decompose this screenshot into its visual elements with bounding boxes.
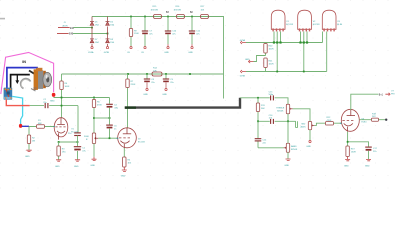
node AC B junction bbox=[107, 33, 109, 35]
pin circle C12 bbox=[191, 47, 193, 49]
capacitor C9 bbox=[163, 79, 175, 84]
wire bass bottom to ground bbox=[287, 152, 289, 159]
svg-text:100R: 100R bbox=[269, 64, 274, 66]
SECTION: heater wiring bbox=[240, 10, 343, 77]
node mid row left bbox=[257, 120, 259, 122]
svg-text:GND: GND bbox=[162, 94, 167, 96]
ground R3 bbox=[56, 160, 61, 161]
node R11 top bbox=[257, 97, 259, 99]
wire plate node to pot column bbox=[54, 97, 110, 99]
svg-text:GND: GND bbox=[50, 100, 55, 102]
svg-text:6V3B: 6V3B bbox=[240, 75, 246, 77]
svg-text:GND: GND bbox=[284, 165, 289, 167]
wire diode column left bbox=[91, 17, 93, 47]
node bus junction C7 bbox=[144, 16, 146, 18]
node rail R7 bbox=[127, 73, 129, 75]
wire C12 column bbox=[191, 17, 193, 31]
svg-text:GND: GND bbox=[90, 165, 95, 167]
svg-text:GND: GND bbox=[143, 94, 148, 96]
svg-text:B250K: B250K bbox=[277, 110, 284, 112]
potentiometer MID bbox=[301, 122, 315, 130]
svg-text:9VB: 9VB bbox=[69, 34, 74, 36]
svg-text:68K: 68K bbox=[38, 123, 42, 125]
wire mid row bbox=[258, 120, 296, 122]
SECTION: V3 stage bbox=[314, 91, 394, 168]
pin B+1 arrow bbox=[385, 93, 390, 96]
svg-text:EL84: EL84 bbox=[337, 24, 343, 26]
pot photo bbox=[4, 88, 13, 100]
node cathode bbox=[347, 141, 349, 143]
svg-text:150K: 150K bbox=[134, 33, 139, 35]
resistor R9 bbox=[129, 29, 132, 37]
wire plate to B+ bbox=[351, 94, 379, 110]
capacitor C8 bbox=[144, 79, 156, 84]
svg-text:GND: GND bbox=[344, 165, 349, 167]
resistor R2 grid leak bbox=[27, 135, 30, 144]
wire treble feed bbox=[240, 98, 288, 105]
stray gray dash top-left bbox=[0, 18, 5, 20]
capacitor C10 bbox=[165, 31, 177, 36]
potentiometer VOLUME bbox=[84, 133, 98, 144]
svg-text:GND: GND bbox=[365, 165, 370, 167]
wire cathode drop bbox=[123, 148, 125, 157]
wire pot bottom to ground bbox=[93, 144, 95, 157]
node B3 bbox=[167, 16, 169, 18]
pin heater supply bottom bbox=[241, 70, 247, 73]
wire R2 drop bbox=[28, 127, 30, 150]
svg-text:MID: MID bbox=[302, 124, 306, 126]
resistor R6 plate load bbox=[61, 74, 63, 118]
node red blob grid in bbox=[19, 124, 22, 128]
wire black jack sleeve bbox=[11, 75, 30, 90]
tube envelope V1 heater bbox=[271, 10, 294, 31]
tube envelope V3 heater bbox=[322, 10, 343, 31]
wire cathode bus bbox=[59, 141, 78, 143]
capacitor C14 bbox=[255, 121, 267, 148]
svg-text:GND: GND bbox=[74, 166, 79, 168]
SECTION: power supply bbox=[57, 6, 224, 98]
svg-text:TREBLE: TREBLE bbox=[276, 107, 285, 109]
diode D6 bbox=[106, 21, 110, 25]
svg-text:6V3A: 6V3A bbox=[88, 51, 94, 54]
wire treble bottom to bass node bbox=[287, 114, 289, 122]
svg-text:6V3B: 6V3B bbox=[104, 52, 110, 54]
wire humdinger tap bbox=[254, 56, 266, 62]
capacitor C4 bbox=[106, 98, 119, 119]
triode V1 bbox=[53, 118, 79, 140]
tube envelope V2 heater bbox=[298, 10, 321, 31]
node AC A junction bbox=[91, 27, 93, 29]
ground arrow annotation bbox=[16, 75, 18, 81]
node cathode right bbox=[77, 141, 79, 143]
svg-text:1K5/5W: 1K5/5W bbox=[151, 9, 158, 11]
svg-text:EL84: EL84 bbox=[362, 121, 368, 123]
capacitor C2 coupling bbox=[43, 99, 48, 108]
resistor R16 inline bbox=[177, 15, 185, 19]
pin circle C7 bbox=[144, 47, 146, 49]
node plate/97 bbox=[61, 97, 63, 99]
resistor R20 humdinger top bbox=[265, 43, 267, 72]
pin circle R9 bbox=[130, 47, 132, 49]
svg-text:470K: 470K bbox=[327, 120, 332, 122]
resistor R19 cathode bbox=[346, 146, 349, 157]
node B2 bbox=[191, 16, 193, 18]
node mid row right bbox=[287, 120, 289, 122]
wire cyan pot wiper bbox=[12, 96, 22, 124]
node dark terminal bbox=[385, 119, 387, 121]
node rail C8 bbox=[146, 73, 148, 75]
svg-text:1M: 1M bbox=[32, 141, 35, 143]
svg-text:GND: GND bbox=[25, 156, 30, 158]
wire link 118 bbox=[94, 117, 110, 119]
wire R9 column bbox=[130, 17, 132, 29]
svg-text:ECC83: ECC83 bbox=[286, 24, 294, 26]
SECTION: V1 stage bbox=[25, 74, 119, 168]
pin circle mid gnd bbox=[309, 140, 311, 142]
pin circle D8 bbox=[106, 47, 108, 49]
svg-text:GND: GND bbox=[188, 52, 193, 54]
svg-text:PRI: PRI bbox=[391, 94, 395, 96]
SECTION: input overlay photos bbox=[1, 52, 56, 128]
pin circle C8 bbox=[146, 88, 148, 90]
wire cathode node bbox=[348, 132, 369, 147]
triode V3 bbox=[340, 109, 359, 132]
ground R19 bbox=[345, 157, 350, 161]
node rail C9 bbox=[165, 73, 167, 75]
SECTION: V2 stage bbox=[117, 74, 241, 178]
diode D8 bbox=[106, 39, 110, 43]
capacitor C17 cathode bypass bbox=[365, 147, 377, 159]
svg-text:B250K: B250K bbox=[291, 149, 298, 151]
capacitor C2b treble bleed bbox=[68, 133, 81, 142]
wire AC A bbox=[74, 27, 93, 29]
svg-text:BASS: BASS bbox=[291, 145, 297, 148]
potentiometer BASS bbox=[284, 143, 298, 152]
svg-text:A25K: A25K bbox=[301, 126, 307, 129]
svg-text:GND: GND bbox=[55, 166, 60, 168]
svg-text:56K: 56K bbox=[261, 108, 265, 110]
wire thick cable dark end bbox=[125, 106, 136, 108]
wire V3 heater pins bbox=[323, 32, 327, 72]
resistor R1 grid stopper bbox=[37, 125, 45, 128]
svg-text:500K: 500K bbox=[84, 136, 89, 138]
wire pink enclosure outline bbox=[1, 52, 54, 94]
resistor R17 inline bbox=[201, 15, 209, 19]
svg-text:GND: GND bbox=[164, 52, 169, 54]
node plate/105 bbox=[61, 105, 63, 107]
wire blue jack ring bbox=[7, 68, 37, 88]
wire thick annotation cable bbox=[125, 98, 240, 108]
wire heater bus top bbox=[246, 42, 323, 44]
wire C9 column bbox=[165, 74, 167, 79]
node red blob jack out bbox=[52, 93, 56, 97]
resistor R14 inline rail bbox=[152, 72, 162, 76]
wire V1 heater pins bbox=[274, 32, 281, 72]
ground C1 bbox=[75, 160, 80, 161]
svg-text:470K: 470K bbox=[97, 105, 102, 107]
wire second grid row bbox=[359, 119, 385, 121]
wire mid wiper to grid stopper bbox=[314, 123, 341, 125]
resistor R21 humdinger bottom bbox=[264, 58, 267, 68]
wire C10 column bbox=[167, 17, 169, 31]
svg-text:ACIN: ACIN bbox=[63, 24, 68, 27]
svg-text:1K5/5W: 1K5/5W bbox=[174, 9, 181, 11]
wire rail stub down bbox=[223, 74, 225, 99]
ground R2 bbox=[26, 150, 31, 151]
svg-text:6V3A: 6V3A bbox=[240, 39, 246, 42]
wire wiper to V2 grid bbox=[98, 137, 117, 139]
svg-text:130R: 130R bbox=[351, 152, 356, 154]
resistor R3 cathode bbox=[58, 142, 60, 159]
wire bass top to node bbox=[287, 121, 289, 143]
pin heater supply top bbox=[241, 41, 247, 44]
ground pot bbox=[92, 157, 97, 161]
wire heater bus bottom bbox=[246, 71, 327, 73]
wire B+ rail bbox=[62, 73, 224, 75]
node R5 bottom bbox=[93, 117, 95, 119]
pin circle C9 bbox=[165, 88, 167, 90]
svg-text:GND: GND bbox=[306, 146, 311, 148]
wire treble wiper to mid pot bbox=[293, 109, 310, 122]
capacitor C7 bbox=[142, 31, 154, 36]
svg-text:GND: GND bbox=[245, 59, 250, 61]
node cathode left bbox=[58, 141, 60, 143]
resistor R11 slope bbox=[257, 98, 259, 122]
svg-text:10K: 10K bbox=[201, 9, 205, 11]
wire V2 heater pins bbox=[301, 32, 308, 72]
resistor R7 plate load bbox=[127, 74, 129, 128]
node heater junctions top bbox=[273, 41, 308, 43]
resistor R5 mixer bbox=[93, 98, 95, 134]
hierarchical label stub bbox=[296, 121, 298, 127]
svg-text:GND: GND bbox=[121, 176, 126, 178]
capacitor C5 bbox=[106, 118, 117, 138]
diode D5 bbox=[90, 21, 94, 25]
svg-text:ECC83: ECC83 bbox=[138, 142, 146, 144]
capacitor C1 cathode bypass bbox=[74, 142, 87, 159]
svg-text:100K: 100K bbox=[65, 86, 70, 88]
wire blue stub to R1 bbox=[22, 125, 29, 127]
ground R4 bbox=[122, 167, 127, 171]
node pot col/97 bbox=[93, 97, 95, 99]
pin circle C10 bbox=[167, 47, 169, 49]
capacitor C12 bbox=[189, 31, 201, 36]
svg-text:IN: IN bbox=[22, 60, 26, 64]
wire mid bottom pin bbox=[309, 130, 311, 141]
pin humdinger tap bbox=[249, 60, 254, 63]
capacitor C16 bbox=[269, 115, 274, 124]
jack photo bbox=[21, 68, 52, 91]
ground bass bbox=[286, 159, 291, 160]
resistor R15 inline bbox=[154, 15, 162, 19]
node rail spare bbox=[189, 73, 191, 75]
resistor R12 grid stopper bbox=[326, 122, 334, 125]
wire red pot bottom bbox=[6, 99, 29, 105]
triode V2 bbox=[117, 128, 146, 148]
svg-text:100R: 100R bbox=[269, 49, 274, 51]
node heater junction bottom bbox=[276, 71, 278, 73]
SECTION: tone stack bbox=[240, 91, 314, 167]
potentiometer TREBLE bbox=[276, 104, 293, 114]
wire bass wiper feed bbox=[258, 147, 284, 149]
wire C8 column bbox=[146, 74, 148, 79]
node bus junction R9 bbox=[130, 16, 132, 18]
svg-text:B+1: B+1 bbox=[379, 94, 384, 96]
wire top B+ bus bbox=[92, 17, 224, 75]
resistor R4 cathode bbox=[123, 157, 126, 167]
wire C7 column bbox=[144, 17, 146, 31]
resistor R18 bbox=[372, 118, 379, 121]
svg-text:10K: 10K bbox=[153, 70, 157, 72]
diode D7 bbox=[90, 39, 94, 43]
wire grid input bbox=[29, 126, 53, 128]
svg-text:ECC83: ECC83 bbox=[313, 24, 321, 26]
pin circle D7 bbox=[91, 47, 93, 49]
wire diode column right bbox=[107, 17, 109, 47]
ground C17 bbox=[366, 159, 371, 160]
svg-text:220K: 220K bbox=[131, 84, 136, 86]
wire AC B bbox=[73, 33, 108, 35]
capacitor C15 bbox=[269, 91, 274, 100]
node C4 bottom bbox=[109, 117, 111, 119]
node wiper/C5 bbox=[109, 137, 111, 139]
wire C2 to plate node bbox=[30, 105, 78, 107]
wire cathode chain drop bbox=[77, 106, 79, 133]
connector J1 bbox=[57, 22, 74, 35]
